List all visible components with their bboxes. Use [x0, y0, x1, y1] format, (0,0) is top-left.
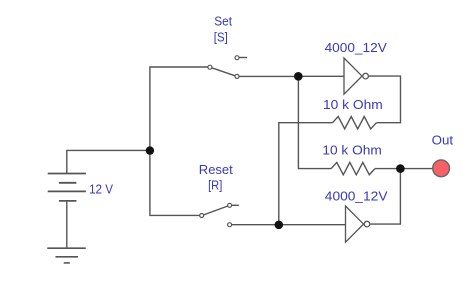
node C junction (Out)	[396, 164, 405, 173]
svg-text:10 k Ohm: 10 k Ohm	[323, 97, 383, 112]
wire U1 output to resistor R1	[368, 76, 400, 123]
switch S (Set) terminals	[208, 56, 239, 79]
wire U2 output up to node C	[370, 171, 401, 224]
node junction at battery branch	[146, 146, 154, 154]
wire Set switch blade	[212, 68, 235, 76]
battery V1 12V	[48, 174, 86, 201]
ground	[47, 248, 86, 263]
node A junction	[294, 72, 303, 81]
wire resistor R1 left to node B	[279, 123, 333, 225]
svg-text:Reset: Reset	[199, 162, 233, 177]
wire node up to Set switch	[150, 67, 208, 151]
wire Reset unused throw stub	[232, 204, 239, 206]
wire resistor R2 right to node C	[375, 168, 398, 170]
wire battery bottom to ground	[66, 201, 68, 248]
svg-text:4000_12V: 4000_12V	[325, 40, 388, 55]
svg-text:12 V: 12 V	[89, 182, 113, 197]
svg-text:Set: Set	[214, 14, 232, 29]
wire Set output to node A	[239, 75, 296, 77]
resistor R2 10k	[331, 162, 375, 174]
svg-text:4000_12V: 4000_12V	[325, 189, 388, 204]
resistor R1 10k	[333, 116, 377, 128]
svg-text:[R]: [R]	[208, 177, 222, 192]
wire node down to Reset switch	[150, 151, 200, 216]
svg-text:[S]: [S]	[214, 30, 228, 45]
svg-text:10 k Ohm: 10 k Ohm	[322, 143, 381, 158]
wire battery top to node	[67, 150, 150, 173]
Out probe indicator	[433, 160, 450, 177]
wire node B to inverter U2 input	[281, 224, 346, 226]
wire node C to Out probe	[403, 168, 433, 170]
node B junction	[275, 221, 284, 230]
wire node A to inverter U1 input	[300, 75, 344, 77]
inverter U1 4000_12V	[344, 58, 368, 94]
svg-text:Out: Out	[432, 133, 454, 148]
wire Set unused throw stub	[239, 57, 247, 59]
switch R (Reset) terminals	[200, 203, 232, 226]
wire node A down to resistor R2	[298, 78, 331, 169]
wire Reset switch blade	[204, 206, 228, 215]
wire Reset output to node B	[232, 224, 277, 226]
inverter U2 4000_12V	[346, 206, 370, 242]
